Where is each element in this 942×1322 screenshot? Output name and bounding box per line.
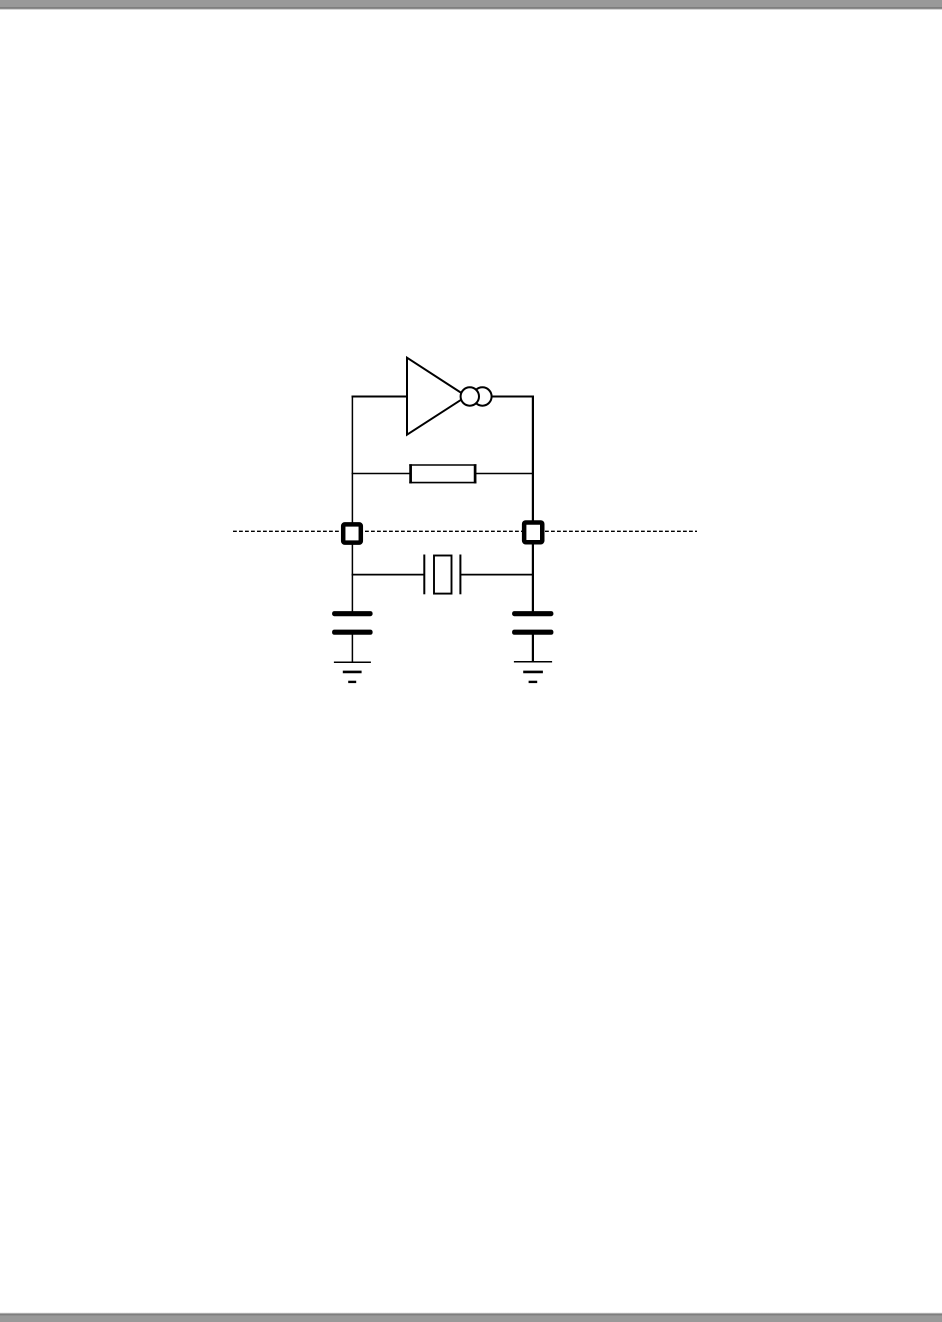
wire: C1 to ground bbox=[351, 634, 353, 662]
wire: crystal left lead bbox=[352, 574, 425, 576]
capacitor C1 bottom plate bbox=[332, 630, 373, 635]
chip boundary dashed line bbox=[233, 530, 697, 532]
inverter output bubble 1 (left) bbox=[461, 387, 479, 405]
inverter output bubble 2 (right) bbox=[473, 387, 491, 405]
crystal Y1 right plate bbox=[459, 555, 461, 595]
capacitor C2 top plate bbox=[512, 611, 553, 616]
capacitor C1 top plate bbox=[332, 611, 373, 616]
inverter U1 triangle bbox=[407, 358, 467, 435]
pin pad left (XIN) bbox=[343, 524, 361, 542]
wire: inverter input horizontal segment bbox=[352, 396, 409, 398]
ground symbol left (GND) bbox=[334, 662, 371, 682]
wire: crystal right lead bbox=[460, 574, 533, 576]
top header bar bbox=[0, 0, 942, 10]
crystal Y1 left plate bbox=[423, 555, 425, 595]
wire: C2 to ground bbox=[532, 634, 534, 662]
ground symbol right (GND) bbox=[514, 662, 552, 682]
resistor R1 (feedback) bbox=[409, 464, 476, 483]
wire: right vertical below pin to C2 bbox=[532, 543, 534, 612]
wire: right vertical (XOUT net, upper) bbox=[532, 396, 534, 522]
wire: resistor right lead bbox=[475, 473, 535, 475]
pin pad right (XOUT) bbox=[524, 522, 542, 542]
wire: left feedback vertical (XIN net, upper) bbox=[351, 396, 353, 524]
capacitor C2 bottom plate bbox=[512, 630, 553, 635]
bottom footer bar bbox=[0, 1312, 942, 1322]
wire: resistor left lead bbox=[352, 473, 410, 475]
wire: left vertical below pin to C1 bbox=[351, 544, 353, 612]
crystal Y1 body bbox=[434, 556, 452, 594]
wire: inverter output horizontal segment bbox=[492, 396, 534, 398]
